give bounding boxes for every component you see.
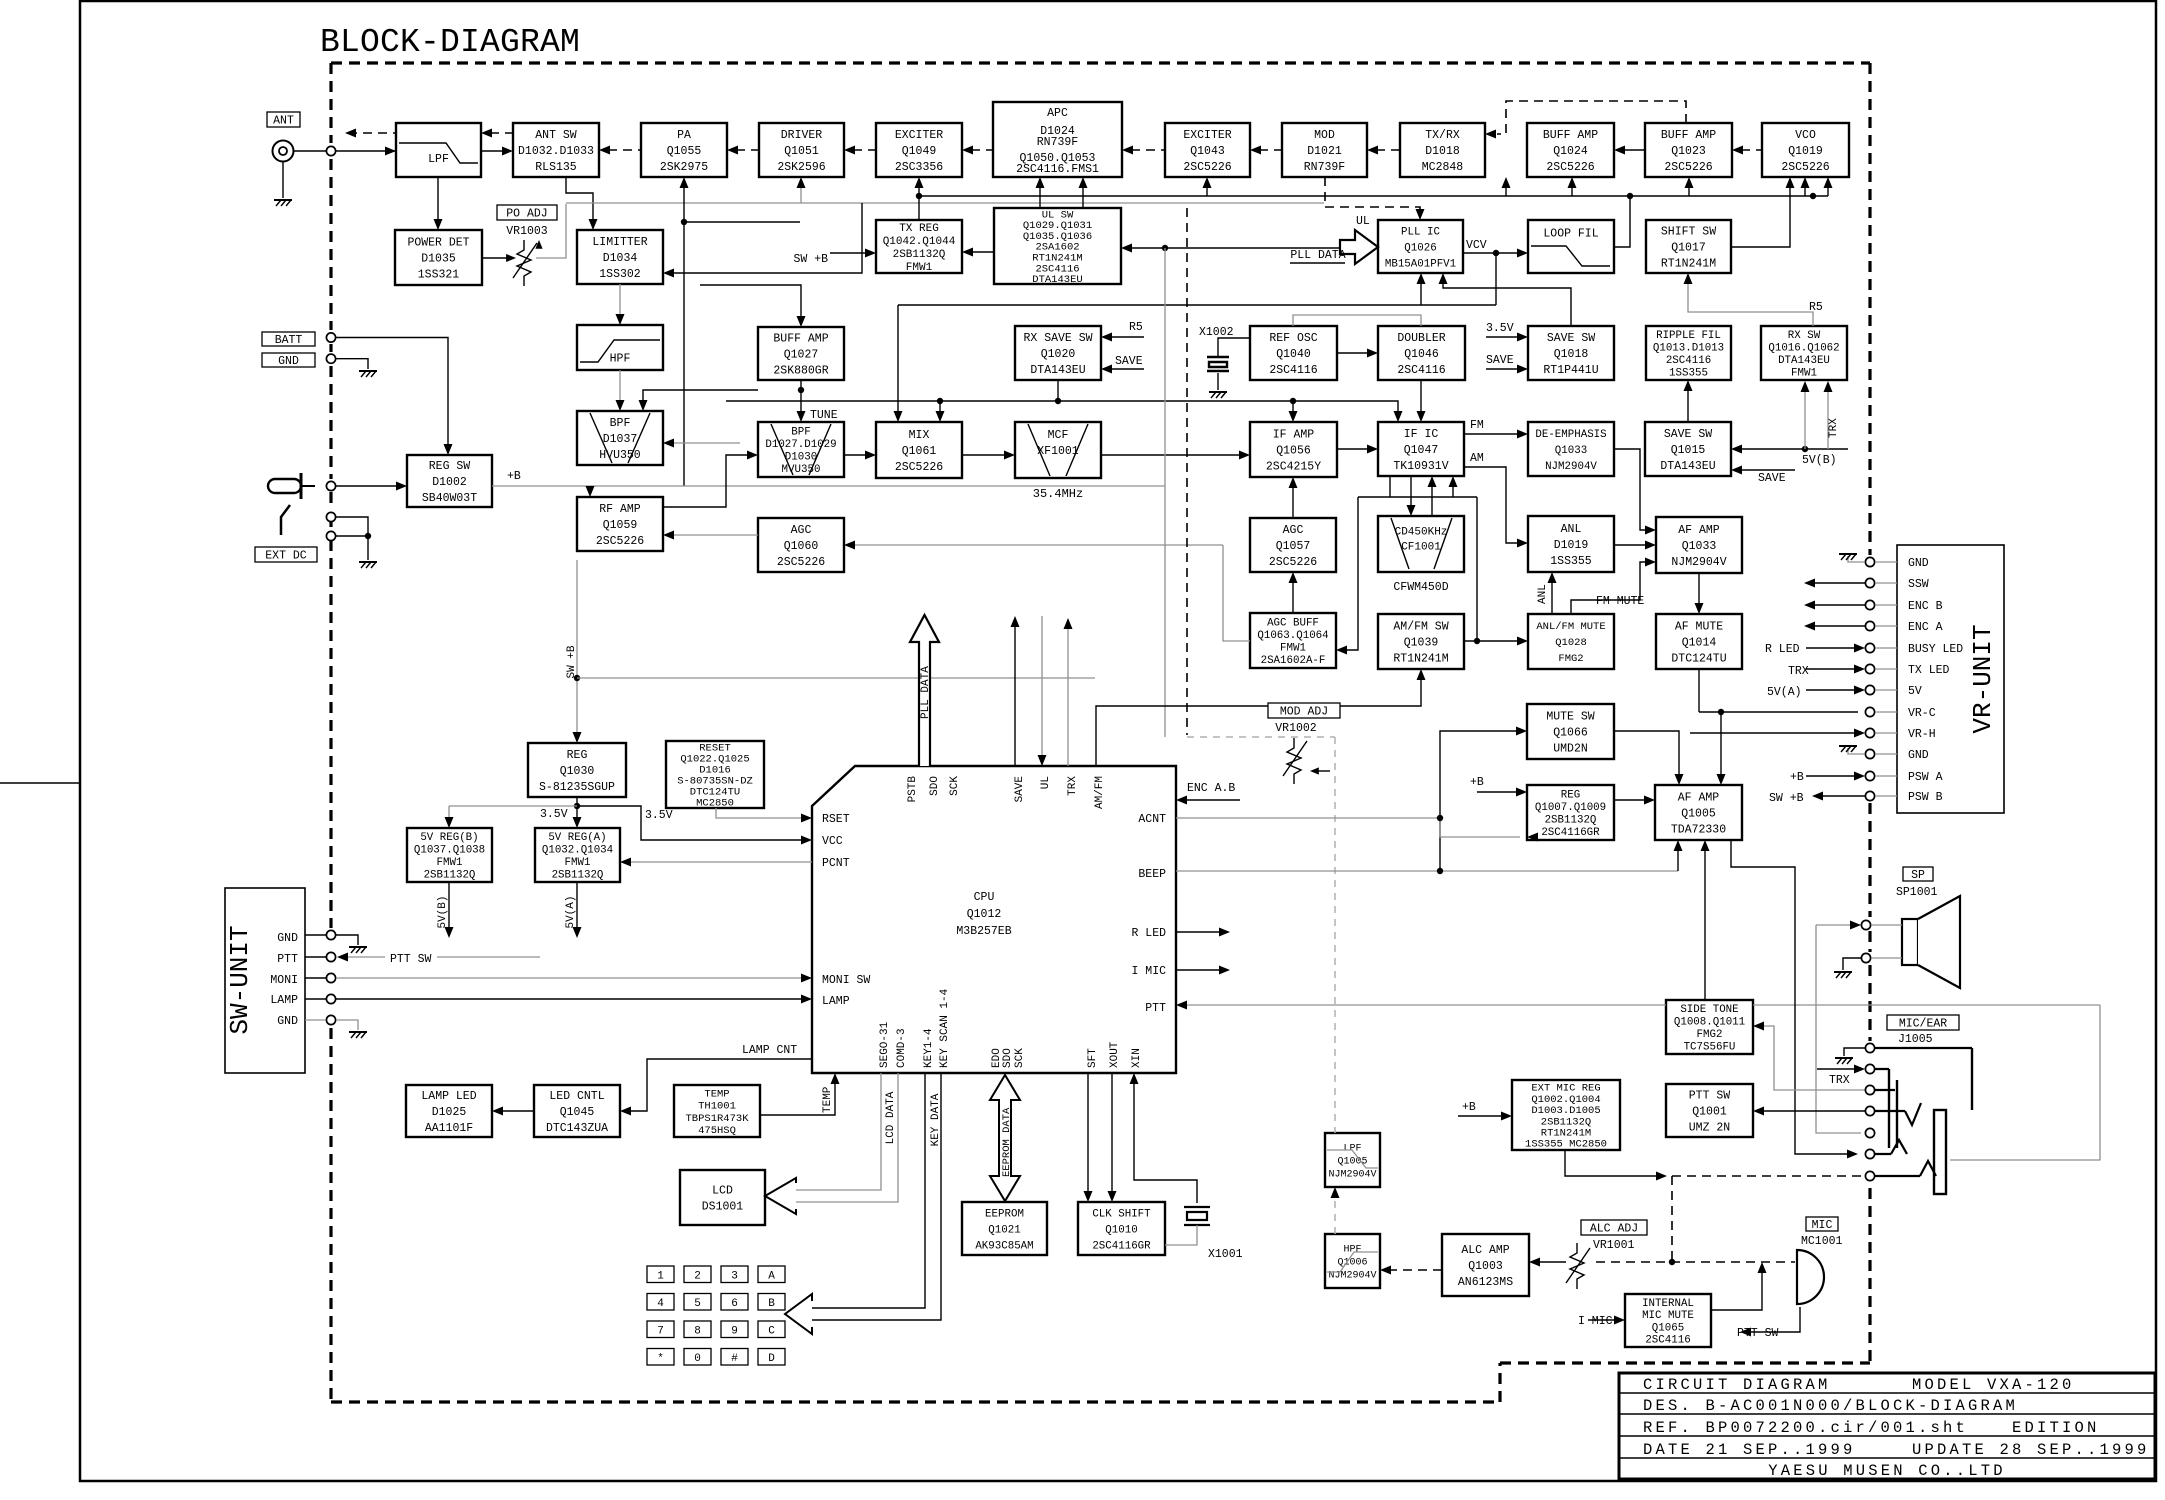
svg-text:SAVE SW: SAVE SW xyxy=(1547,332,1595,345)
wire RX SW 5VB in xyxy=(1804,390,1806,449)
svg-text:EDITION: EDITION xyxy=(2012,1419,2100,1437)
block EXCITER Q1043 xyxy=(1165,123,1250,177)
svg-text:PLL DATA: PLL DATA xyxy=(920,666,932,719)
label ANT xyxy=(267,112,300,128)
block DOUBLER Q1046 xyxy=(1378,326,1465,380)
block PLL IC Q1026 xyxy=(1378,220,1463,273)
arrowhead into SAVE SW Q1015 b xyxy=(1731,466,1742,475)
svg-text:ANT SW: ANT SW xyxy=(535,129,577,142)
svg-text:LPF: LPF xyxy=(428,153,449,166)
svg-text:TRX: TRX xyxy=(1829,1074,1850,1087)
node GND batt xyxy=(326,354,335,363)
svg-text:HVU350: HVU350 xyxy=(599,449,641,462)
arrowhead SFT into CLK SHIFT xyxy=(1084,1191,1093,1202)
keypad key 8 xyxy=(684,1321,711,1338)
arrowhead into TX REG right xyxy=(962,248,973,257)
svg-text:2SC5226: 2SC5226 xyxy=(1269,556,1317,569)
arrowhead into IF IC xyxy=(1367,445,1378,454)
ground at jack xyxy=(1835,1058,1853,1064)
svg-text:REF OSC: REF OSC xyxy=(1269,332,1317,345)
svg-text:SB40W03T: SB40W03T xyxy=(422,492,477,505)
wire bus to MIX column xyxy=(897,305,899,415)
wire rail to IF AMP top xyxy=(1292,401,1294,415)
block EXT MIC REG Q1002-Q1004 xyxy=(1512,1080,1620,1151)
svg-text:2SK2975: 2SK2975 xyxy=(660,161,708,174)
keypad key # xyxy=(721,1349,748,1366)
svg-text:D1021: D1021 xyxy=(1307,145,1342,158)
wire border circle to LPF input xyxy=(336,150,396,152)
wire I MIC out xyxy=(1176,969,1222,971)
grey dashed MOD ADJ horizontal xyxy=(1187,736,1335,738)
svg-text:FMW1: FMW1 xyxy=(1791,368,1817,380)
arrowhead into PA bottom xyxy=(680,177,689,188)
block EXCITER Q1049 xyxy=(876,123,962,177)
dashed wire MOD to PLL top xyxy=(1325,177,1420,212)
arrowhead into ANL/FM MUTE xyxy=(1517,637,1528,646)
arrowhead TEMP into CPU xyxy=(831,1073,840,1084)
wire BEEP xyxy=(1176,870,1678,872)
svg-text:2SC5226: 2SC5226 xyxy=(1781,161,1829,174)
wire rail to MIX top xyxy=(939,401,941,415)
wire PCNT to 5V REG A xyxy=(627,861,812,863)
wire PSW B out xyxy=(1820,795,1865,797)
svg-text:SAVE: SAVE xyxy=(1115,355,1143,368)
node plug sleeve xyxy=(326,531,335,540)
svg-text:LPF: LPF xyxy=(1343,1144,1361,1155)
dashed wire PA to ANT SW xyxy=(608,149,641,151)
block ALC AMP Q1003 xyxy=(1442,1234,1529,1296)
arrowhead PSW A in xyxy=(1854,772,1865,781)
svg-text:AK93C85AM: AK93C85AM xyxy=(975,1240,1033,1252)
block LCD DS1001 xyxy=(680,1170,765,1225)
arrowhead into SAVE SW Q1015 a xyxy=(1731,445,1742,454)
svg-text:*: * xyxy=(657,1353,664,1365)
arrowhead into VR1003 xyxy=(506,254,516,262)
svg-text:PSW A: PSW A xyxy=(1908,771,1943,784)
svg-text:DATE 21 SEP..1999: DATE 21 SEP..1999 xyxy=(1643,1441,1856,1459)
svg-text:3.5V: 3.5V xyxy=(645,809,673,822)
svg-text:2SC5226: 2SC5226 xyxy=(1664,161,1712,174)
svg-text:VR-C: VR-C xyxy=(1908,707,1936,720)
arrowhead into AF AMP Q1005 top a xyxy=(1675,774,1684,785)
block RX SAVE SW Q1020 xyxy=(1015,326,1101,380)
wire VR ENC A out xyxy=(1812,625,1865,627)
node SW GND1 xyxy=(326,930,335,939)
wire BATT to REG SW xyxy=(336,338,448,451)
wire 5V REG A output xyxy=(576,882,578,932)
svg-text:MC2850: MC2850 xyxy=(696,798,734,810)
arrowhead into AGC Q1057 bottom xyxy=(1289,572,1298,583)
svg-text:RN739F: RN739F xyxy=(1037,136,1079,149)
arrowhead into BPF D1027 top xyxy=(797,411,806,422)
svg-text:CIRCUIT DIAGRAM: CIRCUIT DIAGRAM xyxy=(1643,1376,1831,1394)
svg-text:SSW: SSW xyxy=(1908,578,1929,591)
arrowhead PSW B out xyxy=(1812,792,1823,801)
wire VR GND2 stub xyxy=(1875,753,1897,755)
svg-text:IF IC: IF IC xyxy=(1404,428,1439,441)
svg-text:0: 0 xyxy=(694,1353,701,1365)
label EXT DC xyxy=(255,547,317,563)
block EEPROM Q1021 xyxy=(962,1202,1047,1255)
arrowhead 5VA in xyxy=(1854,686,1865,695)
node ANT on border xyxy=(326,146,335,155)
svg-text:TK10931V: TK10931V xyxy=(1393,460,1448,473)
wire ANT SW to LIMITTER xyxy=(566,177,593,224)
wire feed BUFF Q1027 xyxy=(700,285,801,320)
block AGC Q1057 xyxy=(1250,518,1336,572)
keypad key 1 xyxy=(647,1266,674,1283)
wire +B rail xyxy=(492,485,1165,487)
svg-text:5V(B): 5V(B) xyxy=(437,895,449,928)
microphone MC1001 symbol xyxy=(1797,1250,1824,1304)
arrowhead SAVE into RX SAVE SW xyxy=(1101,365,1112,374)
wire SP t2 to speaker xyxy=(1871,957,1902,959)
svg-text:Q1046: Q1046 xyxy=(1404,348,1439,361)
dashed wire MOD to EXCITER2 xyxy=(1259,149,1282,151)
arrowhead into DRIVER bottom xyxy=(797,177,806,188)
svg-text:Q1042.Q1044: Q1042.Q1044 xyxy=(883,236,956,248)
wire SAVE SW Q1015 to RIPPLE FIL xyxy=(1687,388,1689,422)
block PA Q1055 xyxy=(641,123,727,177)
arrowhead VR1003 xyxy=(535,240,542,249)
svg-text:SAVE: SAVE xyxy=(1014,776,1026,803)
arrowhead into BUFF Q1024 xyxy=(1614,146,1625,155)
node VR-UNIT pin y583 xyxy=(1865,578,1874,587)
svg-text:Q1010: Q1010 xyxy=(1105,1224,1137,1236)
arrowhead into LIMITTER top xyxy=(589,219,598,230)
svg-text:D: D xyxy=(768,1353,775,1365)
arrowhead into AGC BUFF xyxy=(1336,646,1347,655)
wire IF IC AM to ANL xyxy=(1464,467,1521,543)
svg-text:TEMP: TEMP xyxy=(704,1088,729,1100)
arrowhead into IF AMP xyxy=(1239,451,1250,460)
wire AF AMP feed up a xyxy=(1677,846,1679,871)
svg-text:DTA143EU: DTA143EU xyxy=(1032,274,1082,286)
grey wire AGC to RF AMP right xyxy=(672,534,758,536)
node VR-UNIT pin y605 xyxy=(1865,600,1874,609)
svg-text:BPF: BPF xyxy=(791,426,810,438)
jack plug body xyxy=(1934,1110,1946,1194)
arrowhead PTT SW at mic xyxy=(1740,1328,1751,1337)
wire SP t2 ground xyxy=(1843,958,1861,970)
svg-text:DTC143ZUA: DTC143ZUA xyxy=(546,1122,608,1135)
svg-text:1: 1 xyxy=(657,1271,664,1283)
wire XIN to X1001 xyxy=(1134,1079,1197,1203)
arrowhead ENC A out xyxy=(1804,622,1815,631)
arrowhead into LPF Q1005 bottom xyxy=(1331,1187,1340,1198)
wire BPF D1027 to MIX xyxy=(844,454,869,456)
dashed wire VCO to BUFF Q1023 xyxy=(1741,149,1762,151)
svg-text:LAMP CNT: LAMP CNT xyxy=(742,1044,797,1057)
wire 3.5V branch to 5V REG B xyxy=(449,805,577,807)
svg-text:Q1066: Q1066 xyxy=(1553,727,1588,740)
arrowhead rail into TX/RX bottom xyxy=(1502,177,1511,188)
title block table xyxy=(1619,1373,2155,1479)
svg-text:PCNT: PCNT xyxy=(822,857,850,870)
svg-text:DTC124TU: DTC124TU xyxy=(1671,653,1726,666)
wire REG Q1030 to 3.5V rail xyxy=(576,797,578,821)
grey rail y203 long xyxy=(566,202,1324,204)
arrowhead into BUFF Q1023 bottom xyxy=(1685,177,1694,188)
svg-text:I MIC: I MIC xyxy=(1131,965,1166,978)
arrowhead I MIC out xyxy=(1219,966,1230,975)
svg-text:AN6123MS: AN6123MS xyxy=(1458,1276,1513,1289)
svg-text:2SC4116: 2SC4116 xyxy=(1269,364,1317,377)
junction MIX feed on rail xyxy=(937,398,943,404)
arrowhead into VCO bottom right xyxy=(1824,177,1833,188)
svg-text:PSTB: PSTB xyxy=(907,776,919,803)
svg-text:SCK: SCK xyxy=(1014,1048,1026,1068)
arrowhead INTERNAL MIC MUTE up xyxy=(1758,1262,1767,1273)
svg-text:2SC4116: 2SC4116 xyxy=(1645,1335,1690,1347)
svg-text:VCV: VCV xyxy=(1466,239,1487,252)
arrowhead into CPU VCC xyxy=(801,836,812,845)
jack contact prongs xyxy=(1891,1103,1936,1176)
svg-text:Q1027: Q1027 xyxy=(784,349,819,362)
svg-text:PA: PA xyxy=(677,129,691,142)
svg-text:CD450KHz: CD450KHz xyxy=(1395,526,1448,538)
svg-text:SW +B: SW +B xyxy=(1769,792,1804,805)
wire 3.5V to VCC xyxy=(577,806,805,840)
arrowhead into SHIFT SW bottom xyxy=(1684,273,1693,284)
arrowhead SAVE up xyxy=(1011,616,1020,627)
svg-text:REG SW: REG SW xyxy=(429,460,471,473)
wire VR-H long xyxy=(1690,732,1858,734)
wire VR GND1 ground xyxy=(1848,556,1865,562)
svg-text:B: B xyxy=(768,1298,775,1310)
jack internal contacts xyxy=(1875,1048,1972,1176)
node VR-UNIT pin y796 xyxy=(1865,791,1874,800)
svg-text:Q1005: Q1005 xyxy=(1337,1157,1367,1168)
svg-text:GND: GND xyxy=(1908,749,1929,762)
wire TX LED stub xyxy=(1875,668,1897,670)
arrowhead into RX SW bottom a xyxy=(1801,381,1810,392)
wire VR-H stub xyxy=(1875,732,1897,734)
svg-text:SIDE TONE: SIDE TONE xyxy=(1680,1004,1738,1016)
svg-text:FM MUTE: FM MUTE xyxy=(1596,595,1644,608)
svg-text:MUTE SW: MUTE SW xyxy=(1546,711,1594,724)
arrowhead into PLL top xyxy=(1416,209,1425,220)
wire AGC rail to AGC BUFF xyxy=(1223,545,1250,641)
svg-text:Q1028: Q1028 xyxy=(1555,637,1587,649)
svg-text:5: 5 xyxy=(694,1298,701,1310)
PLL DATA big hollow arrow into PLL IC xyxy=(1340,230,1378,264)
arrowhead into BUFF Q1027 top xyxy=(797,316,806,327)
svg-text:Q1047: Q1047 xyxy=(1404,444,1439,457)
node VR-UNIT pin y669 xyxy=(1865,664,1874,673)
arrowhead into HPF Q1006 right xyxy=(1380,1266,1391,1275)
svg-text:Q1008.Q1011: Q1008.Q1011 xyxy=(1674,1016,1745,1028)
node SW PTT xyxy=(326,952,335,961)
wire SW GND1 to ground xyxy=(336,935,358,945)
node SW GND2 xyxy=(326,1015,335,1024)
block AF MUTE Q1014 xyxy=(1656,614,1742,669)
svg-text:EXCITER: EXCITER xyxy=(1183,129,1231,142)
svg-text:RF AMP: RF AMP xyxy=(599,503,641,516)
block RESET Q1022-Q1025 xyxy=(666,741,764,810)
svg-text:Q1018: Q1018 xyxy=(1554,348,1589,361)
wire rail up to EXCITER2 xyxy=(1206,183,1208,196)
arrowhead into TX/RX right xyxy=(1485,130,1496,139)
wire IF IC pin drop xyxy=(1389,476,1391,497)
svg-text:C: C xyxy=(768,1326,775,1338)
keypad key B xyxy=(758,1294,785,1311)
block MIX Q1061 xyxy=(876,422,962,478)
svg-text:Q1013.D1013: Q1013.D1013 xyxy=(1653,342,1724,354)
block HPF (RX high pass filter) xyxy=(577,325,663,370)
svg-text:2SB1132Q: 2SB1132Q xyxy=(424,870,476,882)
svg-text:Q1002.Q1004: Q1002.Q1004 xyxy=(1531,1094,1600,1106)
svg-text:AGC: AGC xyxy=(791,524,812,537)
arrowhead into BPF D1037 right xyxy=(663,439,674,448)
wire VR SSW stub xyxy=(1875,582,1897,584)
arrowhead into RIPPLE FIL bottom xyxy=(1684,380,1693,391)
svg-text:ANL: ANL xyxy=(1561,523,1582,536)
svg-text:2SB1132Q: 2SB1132Q xyxy=(1541,1116,1591,1128)
wire SIDE TONE to AF AMP xyxy=(1704,846,1706,1000)
svg-text:PSW B: PSW B xyxy=(1908,791,1943,804)
svg-text:REF. BP0072200.cir/001.sht: REF. BP0072200.cir/001.sht xyxy=(1643,1419,1968,1437)
svg-text:475HSQ: 475HSQ xyxy=(698,1125,736,1137)
svg-text:SP1001: SP1001 xyxy=(1896,886,1938,899)
svg-text:TRX: TRX xyxy=(1828,418,1840,438)
block SIDE TONE Q1008-Q1011 xyxy=(1666,1000,1753,1054)
arrowhead 3.5V into SAVE SW xyxy=(1517,333,1528,342)
svg-text:PTT SW: PTT SW xyxy=(1737,1327,1779,1340)
svg-text:+B: +B xyxy=(1462,1101,1476,1114)
svg-text:ALC ADJ: ALC ADJ xyxy=(1590,1223,1638,1236)
svg-text:3.5V: 3.5V xyxy=(540,808,568,821)
svg-text:R LED: R LED xyxy=(1131,927,1166,940)
junction rail IF AMP xyxy=(1290,398,1296,404)
svg-text:2SC4116GR: 2SC4116GR xyxy=(1092,1240,1151,1252)
svg-text:D1003.D1005: D1003.D1005 xyxy=(1531,1105,1600,1117)
block AF AMP Q1033 xyxy=(1656,517,1742,573)
junction TUNE xyxy=(798,387,804,393)
wire SFT to CLK SHIFT xyxy=(1087,1073,1089,1196)
wire AGC loop to IF IC xyxy=(1452,482,1454,497)
dashed wire ANT SW to LPF upper xyxy=(490,132,513,134)
block REG Q1030 xyxy=(528,743,626,797)
svg-text:LED CNTL: LED CNTL xyxy=(549,1090,604,1103)
wire VR SSW out xyxy=(1812,582,1865,584)
svg-text:Q1049: Q1049 xyxy=(902,145,937,158)
svg-text:Q1056: Q1056 xyxy=(1276,445,1311,458)
svg-text:AF MUTE: AF MUTE xyxy=(1675,621,1723,634)
wire TUNE rail to BPF D1037 xyxy=(643,390,758,404)
svg-text:1SS355 MC2850: 1SS355 MC2850 xyxy=(1525,1139,1607,1151)
arrowhead into EXCITER2 bottom xyxy=(1203,177,1212,188)
node BATT xyxy=(326,333,335,342)
arrowhead SAVE into SAVE SW xyxy=(1517,365,1528,374)
svg-text:TRX: TRX xyxy=(1788,665,1809,678)
svg-text:D1025: D1025 xyxy=(432,1106,467,1119)
wire PLL data bus y305 xyxy=(898,304,1496,306)
wire PTT SW line cont xyxy=(437,956,540,958)
junction VR-C feed xyxy=(1718,709,1724,715)
svg-text:BEEP: BEEP xyxy=(1138,868,1166,881)
arrowhead into BPF D1037 top right xyxy=(639,400,648,411)
wire 5VA in xyxy=(1806,689,1858,691)
wire SAVE up xyxy=(1014,624,1016,766)
svg-text:D1037: D1037 xyxy=(603,433,638,446)
keypad key 2 xyxy=(684,1266,711,1283)
wire X1002 to REF OSC xyxy=(1218,338,1250,357)
label BATT xyxy=(262,332,315,347)
block AF AMP Q1005 xyxy=(1655,785,1742,840)
svg-text:Q1055: Q1055 xyxy=(667,145,702,158)
wire plug tip to REG SW xyxy=(336,485,400,487)
svg-text:APC: APC xyxy=(1047,107,1068,120)
svg-text:RIPPLE FIL: RIPPLE FIL xyxy=(1656,330,1721,342)
svg-text:Q1030: Q1030 xyxy=(560,765,595,778)
svg-text:MCF: MCF xyxy=(1048,429,1069,442)
arrowhead into BUFF Q1024 bottom xyxy=(1568,177,1577,188)
arrowhead into RF AMP top xyxy=(586,486,595,497)
junction PA feed xyxy=(681,219,687,225)
dashed wire DRIVER to PA xyxy=(736,149,759,151)
svg-text:ALC AMP: ALC AMP xyxy=(1461,1244,1509,1257)
svg-text:BUFF AMP: BUFF AMP xyxy=(1543,129,1598,142)
arrowhead into ANL bottom xyxy=(1548,572,1557,583)
svg-text:VCO: VCO xyxy=(1795,129,1816,142)
LOOP FIL curve symbol xyxy=(1531,246,1610,266)
keypad key 5 xyxy=(684,1294,711,1311)
label PO ADJ xyxy=(497,205,557,221)
svg-text:Q1012: Q1012 xyxy=(967,908,1002,921)
block MOD D1021 xyxy=(1282,123,1367,177)
arrowhead into AM/FM SW bottom xyxy=(1417,669,1426,680)
junction mic dash xyxy=(1669,1259,1675,1265)
arrowhead R LED in xyxy=(1854,644,1865,653)
arrowhead TRX up xyxy=(1064,618,1073,629)
svg-text:SHIFT SW: SHIFT SW xyxy=(1661,226,1716,239)
wire RF AMP out to BPF D1027 xyxy=(663,455,751,507)
svg-text:TC7S56FU: TC7S56FU xyxy=(1684,1042,1736,1054)
arrowhead into RF AMP right xyxy=(663,531,674,540)
wire IF IC to CD450 filter xyxy=(1410,476,1412,510)
wire BUFF Q1027 to TUNE junction xyxy=(800,380,802,390)
LPF curve symbol xyxy=(399,143,478,163)
svg-text:AA1101F: AA1101F xyxy=(425,1122,473,1135)
svg-text:MVU350: MVU350 xyxy=(782,464,821,476)
wire audio grey column xyxy=(1816,925,1861,1133)
svg-text:Q1015: Q1015 xyxy=(1671,444,1706,457)
wire AM/FM out vertical xyxy=(1476,497,1478,641)
svg-text:2SC5226: 2SC5226 xyxy=(596,535,644,548)
crystal X1001 symbol xyxy=(1184,1207,1210,1225)
wire CPU AM/FM to AM/FM SW xyxy=(1096,675,1421,766)
block DRIVER Q1051 xyxy=(759,123,844,177)
dashed wire APC to EXCITER xyxy=(971,149,993,151)
svg-text:3: 3 xyxy=(731,1271,738,1283)
svg-text:FMG2: FMG2 xyxy=(1697,1029,1723,1041)
node MIC/EAR jack pin y1069 xyxy=(1865,1064,1874,1073)
arrowhead into ANT SW xyxy=(502,147,513,156)
arrowhead TRX into jack xyxy=(1854,1065,1865,1074)
keypad key * xyxy=(647,1349,674,1366)
arrowhead LAMP into CPU xyxy=(801,995,812,1004)
arrowhead into IF IC top left xyxy=(1394,411,1403,422)
wire plug sleeve xyxy=(336,536,368,560)
svg-text:GND: GND xyxy=(1908,557,1929,570)
wire VR ENC B stub xyxy=(1875,604,1897,606)
svg-text:1SS355: 1SS355 xyxy=(1550,555,1592,568)
block UL SW Q1029-Q1031 xyxy=(994,208,1121,286)
svg-text:RN739F: RN739F xyxy=(1304,161,1346,174)
wire rail up VCO right xyxy=(1827,183,1829,196)
svg-text:SW +B: SW +B xyxy=(566,645,578,678)
